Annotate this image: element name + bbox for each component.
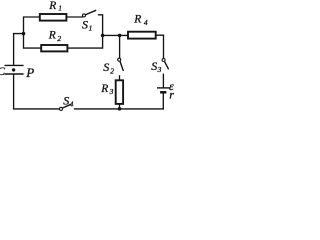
resistor R4 — [128, 32, 156, 39]
svg-text:1: 1 — [58, 4, 62, 13]
svg-text:R: R — [133, 14, 141, 26]
wire bottom-right run — [75, 108, 164, 110]
wire lower-left vertical and bottom-left run — [14, 75, 60, 109]
node R3-bottom junction dot — [118, 107, 122, 111]
wire node B down to S2 — [119, 35, 121, 58]
wire R2 right lead up to node A — [68, 35, 103, 48]
wire S1 fixed stub down to node A — [99, 15, 103, 36]
switch S3 — [162, 59, 169, 70]
svg-text:S: S — [103, 60, 109, 74]
capacitor C plates — [5, 65, 24, 74]
svg-text:3: 3 — [109, 87, 114, 96]
wire R3 bottom stub — [119, 104, 121, 109]
particle P dot — [12, 68, 15, 71]
svg-text:R: R — [48, 30, 56, 42]
svg-text:P: P — [25, 65, 34, 80]
wire left rail: R1 lead, left vertical, R2 lead — [24, 17, 42, 48]
resistor R1 — [40, 14, 67, 21]
svg-text:4: 4 — [144, 18, 148, 27]
wire R4 left lead — [103, 34, 128, 36]
switch S4 — [59, 104, 71, 110]
node left junction dot — [22, 32, 26, 36]
svg-text:2: 2 — [110, 67, 114, 76]
svg-text:1: 1 — [89, 24, 93, 33]
battery cell: short thick plate — [160, 91, 166, 94]
svg-text:S: S — [82, 18, 88, 32]
resistor R2 — [41, 45, 67, 51]
wire capacitor branch — [14, 34, 24, 65]
battery cell: long plate — [157, 87, 170, 89]
svg-text:2: 2 — [57, 34, 61, 43]
svg-text:4: 4 — [70, 99, 74, 108]
wire S2 to R3 top stub — [119, 76, 121, 80]
wire battery top lead — [162, 74, 164, 87]
node A junction dot — [101, 34, 105, 38]
switch S2 — [118, 58, 124, 71]
svg-text:S: S — [151, 59, 157, 73]
resistor R3 (vertical) — [116, 80, 123, 104]
svg-text:r: r — [169, 88, 174, 102]
svg-text:S: S — [63, 94, 69, 108]
wire R4 right lead down to S3 — [156, 35, 164, 58]
switch S1 — [83, 10, 97, 17]
svg-text:R: R — [48, 0, 56, 12]
node B junction dot — [118, 34, 122, 38]
svg-text:3: 3 — [157, 65, 162, 74]
wire battery bottom lead — [162, 93, 164, 109]
wire R1 right lead — [67, 16, 83, 18]
svg-text:R: R — [100, 83, 108, 95]
